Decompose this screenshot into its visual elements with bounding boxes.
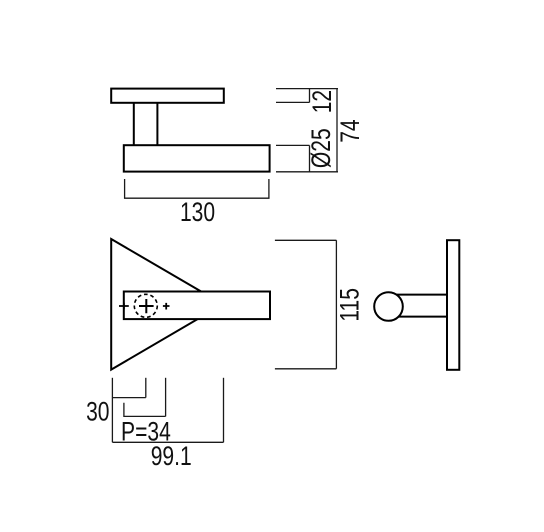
svg-text:30: 30 <box>86 397 109 427</box>
extension line: 115 top <box>275 239 337 241</box>
svg-text:74: 74 <box>336 119 366 142</box>
dimension line: 99.1 <box>112 441 223 443</box>
extension line: top of lever (top view) <box>276 144 310 146</box>
front view: triangular escutcheon body <box>111 239 223 370</box>
dimension line: 74 <box>336 89 338 172</box>
side view: lever end circle <box>374 292 403 321</box>
dimension line: 12 <box>309 89 311 103</box>
dimension bracket: P=34 <box>124 403 166 417</box>
side view: neck stem bottom line <box>390 316 447 318</box>
front view: left screw hole cross <box>119 303 129 310</box>
front view: right screw hole cross <box>163 303 170 310</box>
svg-text:12: 12 <box>307 90 337 113</box>
extension line: bottom of lever (top view) <box>276 171 338 173</box>
front view: spindle center cross <box>139 299 154 313</box>
top view: neck stem right line <box>156 103 158 145</box>
svg-text:99.1: 99.1 <box>151 441 192 471</box>
extension line: lever end (99.1) <box>223 378 225 443</box>
extension line: top of rose plate <box>276 88 338 90</box>
dimension line: diameter 25 <box>309 145 311 171</box>
svg-text:Ø25: Ø25 <box>306 128 336 168</box>
extension line: handle center (30) <box>145 378 147 398</box>
side view: neck stem top line <box>390 294 447 296</box>
extension line: 115 bottom <box>275 368 337 370</box>
side view: mounting plate <box>447 240 459 370</box>
top view: neck stem left line <box>133 103 135 145</box>
front view: lever grip bar (covers triangle apex) <box>124 292 270 320</box>
extension line: left edge (30 / 99.1) <box>111 378 113 443</box>
dimension line: 115 <box>335 240 337 368</box>
top view: rose plate edge (thin rect) <box>111 89 224 103</box>
front view: spindle dashed circle <box>134 294 157 317</box>
svg-text:130: 130 <box>180 198 215 228</box>
extension line: bottom of rose plate <box>276 101 310 103</box>
top view: lever grip (big rect) <box>124 145 270 171</box>
dimension bracket: 130 <box>125 179 269 198</box>
extension line: right screw hole (P=34) <box>165 378 167 417</box>
dimension line: 30 <box>112 397 145 399</box>
svg-text:115: 115 <box>335 288 365 322</box>
